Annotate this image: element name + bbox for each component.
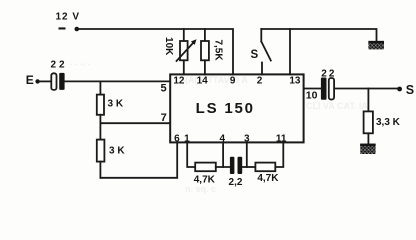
resistor 7,5K [204,29,206,41]
svg-text:S: S [251,49,259,61]
resistor 3K lower [99,123,101,139]
svg-text:4,7K: 4,7K [257,173,279,184]
wire bottom left to pin 6 [100,143,177,178]
svg-text:CLI VA CAT. IA: CLI VA CAT. IA [306,101,368,111]
svg-text:22: 22 [51,60,68,71]
resistor 3K upper [99,81,101,94]
wire to S output [334,88,399,90]
node dot 12V [75,27,80,32]
wire bus segment 3 to pin 11 [275,143,283,167]
capacitor C1 22 input [51,73,56,90]
resistor R 4,7K right [255,163,275,172]
svg-text:14: 14 [197,75,209,86]
svg-text:4,7K: 4,7K [194,174,216,185]
svg-text:. . ., .: . . ., . [70,57,90,67]
svg-text:5: 5 [160,83,166,95]
wire pin 4 [222,143,224,167]
minus sign [59,27,66,29]
ground bottom right [360,144,375,154]
wire pin 10 [305,88,321,90]
svg-text:-(A(-OTTAVIO A: -(A(-OTTAVIO A [182,75,248,85]
switch S [261,29,271,75]
svg-text:10: 10 [306,90,318,102]
trimmer resistor 10K [183,29,185,41]
svg-text:3 K: 3 K [108,98,124,109]
IC U1 LS 150 [170,74,303,142]
svg-text:7,5K: 7,5K [212,39,223,61]
svg-text:3,3 K: 3,3 K [376,117,401,128]
svg-text:E: E [26,73,34,87]
capacitor 22 output [321,78,327,100]
svg-text:7: 7 [161,112,167,124]
wire branch to 3,3K [367,89,369,112]
svg-text:11: 11 [276,133,287,144]
wire pin 1 [187,143,195,167]
svg-text:2: 2 [257,75,263,86]
wire top right rail to ground [261,29,376,41]
svg-text:LS 150: LS 150 [196,100,255,117]
wire pin 7 [100,122,169,124]
svg-text:S: S [406,83,414,97]
svg-text:n. sq. c: n. sq. c [185,184,216,194]
resistor R 4,7K left [195,163,216,172]
node dot E [35,79,39,83]
resistor 3,3K [364,111,373,133]
svg-text:22: 22 [321,69,336,80]
wire pin 3 [246,143,248,167]
wire bus segment 2 [242,166,255,168]
wire bus segment 1 [216,166,230,168]
svg-text:12 V: 12 V [56,12,81,23]
wire E to capacitor [38,80,51,82]
svg-text:12: 12 [173,75,185,86]
wire pin 13 [289,29,291,75]
svg-text:13: 13 [289,75,301,86]
ground top right [368,41,384,50]
wire 12V rail to pin 9 [77,29,233,75]
wire 3,3K to ground [367,133,369,143]
svg-text:9: 9 [230,75,236,86]
node dot S [397,87,402,92]
capacitor 2,2 [230,157,235,174]
svg-text:10K: 10K [163,37,174,56]
svg-text:3 K: 3 K [109,146,125,157]
wire pin 5 [65,80,170,82]
svg-text:2,2: 2,2 [229,177,243,188]
